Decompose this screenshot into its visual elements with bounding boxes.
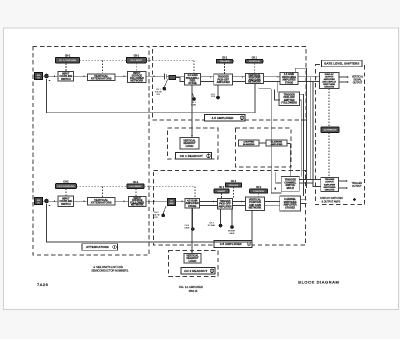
svg-text:CH-1: CH-1 [65,56,71,58]
svg-text:& OUTPUT AMPS: & OUTPUT AMPS [322,200,341,203]
svg-text:OUTPUT: OUTPUT [352,186,362,188]
svg-text:VERTICAL: VERTICAL [352,76,364,79]
svg-text:4.5 AMPLIFIER: 4.5 AMPLIFIER [212,116,235,120]
svg-text:SWITCH: SWITCH [61,78,71,81]
svg-text:STAGES: STAGES [285,207,295,210]
svg-text:7A26: 7A26 [37,282,48,287]
svg-text:POS: POS [211,96,216,98]
svg-text:AMPLIFIER: AMPLIFIER [324,183,336,186]
svg-text:INVERT: INVERT [217,191,226,193]
svg-text:SWITCH: SWITCH [61,203,71,206]
svg-text:OUTPUT: OUTPUT [353,82,363,84]
svg-text:SIGNAL: SIGNAL [353,78,362,81]
svg-text:ATTENUATORS: ATTENUATORS [91,77,112,81]
svg-text:STAGE: STAGE [285,82,294,85]
svg-text:AMPLIFIER: AMPLIFIER [271,143,283,146]
svg-text:AMP: AMP [169,202,174,205]
svg-text:CH-2: CH-2 [63,182,69,184]
svg-text:CH 2: CH 2 [231,181,237,183]
svg-text:4.5 AMPLIFIER: 4.5 AMPLIFIER [220,242,243,246]
svg-text:TRIGGER: TRIGGER [220,61,230,63]
svg-text:CH 2 COUPLING: CH 2 COUPLING [57,186,74,188]
svg-text:TRIGGER: TRIGGER [325,179,335,181]
svg-text:LOGIC: LOGIC [189,260,197,263]
svg-text:AMPLIFIER: AMPLIFIER [218,205,231,208]
svg-text:CH 1 COUPLING: CH 1 COUPLING [59,60,76,62]
svg-text:TRIGGER: TRIGGER [351,183,362,185]
svg-text:LOGIC: LOGIC [186,145,194,148]
svg-text:CH 1 INPUT: CH 1 INPUT [130,60,143,62]
svg-text:POSITION: POSITION [253,191,264,193]
svg-text:SEMICONDUCTOR NUMBERS.: SEMICONDUCTOR NUMBERS. [91,268,129,272]
svg-text:ATTENUATORS: ATTENUATORS [91,201,112,205]
svg-text:CIRCUITS: CIRCUITS [325,190,335,192]
svg-text:CH 1: CH 1 [252,57,258,59]
svg-text:CH-1: CH-1 [134,56,140,58]
svg-text:BLANKING: BLANKING [243,143,255,146]
svg-text:FIG. 3-1 AMPLIFIER: FIG. 3-1 AMPLIFIER [179,285,203,289]
svg-text:CH 1 READOUT: CH 1 READOUT [180,154,203,158]
svg-text:STAGE: STAGE [188,205,197,208]
svg-text:POSITION: POSITION [249,61,260,63]
svg-text:CH 2: CH 2 [219,187,225,189]
svg-text:GAIN: GAIN [229,232,235,235]
svg-text:STAGE: STAGE [188,82,197,85]
svg-text:ATTENUATORS: ATTENUATORS [86,245,109,249]
svg-text:DC BAL: DC BAL [208,224,216,227]
svg-text:MULTI: MULTI [287,187,295,190]
svg-text:BLOCK DIAGRAM: BLOCK DIAGRAM [298,280,339,285]
svg-text:FOLLOWERS: FOLLOWERS [281,102,297,105]
svg-text:TRIGGER: TRIGGER [228,185,238,187]
svg-text:CH 2: CH 2 [256,187,262,189]
svg-text:CH 2 READOUT: CH 2 READOUT [184,269,207,273]
svg-text:CH 2 INPUT: CH 2 INPUT [129,186,142,188]
svg-text:AMPLIFIER: AMPLIFIER [217,81,230,84]
svg-text:NETWORK: NETWORK [249,207,262,210]
svg-text:4564-15: 4564-15 [189,290,198,293]
svg-text:ALTERNATE: ALTERNATE [324,129,337,132]
svg-text:DISPLAY SWITCHES: DISPLAY SWITCHES [320,197,343,200]
svg-text:SIG: SIG [37,200,41,202]
svg-text:CH 1: CH 1 [222,57,228,59]
svg-text:CH-2: CH-2 [133,182,139,184]
svg-text:GATE LEVEL SHIFTERS: GATE LEVEL SHIFTERS [324,62,359,66]
svg-text:SIG: SIG [37,75,41,77]
svg-text:GAIN: GAIN [184,226,190,229]
